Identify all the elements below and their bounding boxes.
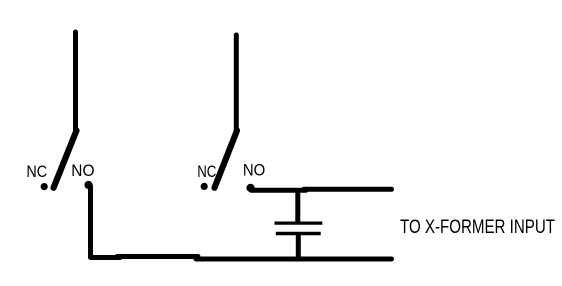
svg-text:NC: NC [197, 163, 216, 181]
svg-text:NC: NC [26, 163, 47, 181]
svg-text:TO X-FORMER INPUT: TO X-FORMER INPUT [400, 217, 555, 238]
svg-text:NO: NO [243, 162, 266, 180]
svg-text:NO: NO [71, 162, 94, 180]
